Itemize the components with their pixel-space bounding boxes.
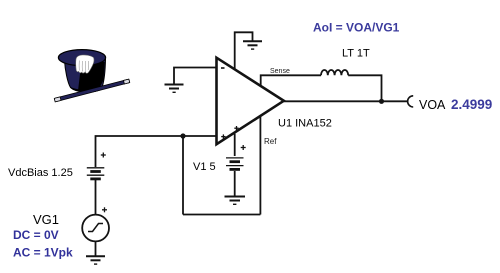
- battery V1 5: [226, 158, 244, 170]
- svg-text:AC = 1Vpk: AC = 1Vpk: [13, 246, 73, 260]
- node: junction of +input net and Ref loop: [180, 133, 185, 138]
- logo: hat bottom rim shadow: [70, 86, 103, 93]
- ground: below battery V1: [225, 197, 246, 205]
- svg-text:LT 1T: LT 1T: [342, 48, 370, 60]
- svg-text:Sense: Sense: [270, 68, 290, 75]
- op-amp non-inverting input marker +: [221, 134, 225, 138]
- battery V1 plus marker: [241, 145, 246, 150]
- source VG1 waveform glyph: [88, 224, 103, 232]
- svg-text:2.4999: 2.4999: [451, 97, 492, 112]
- svg-text:VG1: VG1: [33, 212, 59, 227]
- logo: magician hat body: [65, 60, 106, 93]
- wire: loop left side down from junction: [182, 136, 184, 215]
- logo: glove: [76, 55, 94, 73]
- wire: battery V1 bottom to ground: [234, 171, 236, 197]
- op-amp positive supply marker +: [234, 126, 238, 130]
- svg-text:DC = 0V: DC = 0V: [13, 228, 59, 242]
- wire: inductor to output node: [348, 75, 381, 101]
- logo: hat interior shadow: [78, 60, 105, 92]
- node: output junction: [379, 99, 384, 104]
- svg-text:VOA: VOA: [419, 98, 446, 112]
- ground: top ground on V- supply: [243, 41, 262, 49]
- wire: Ref pin down from op-amp to loop: [259, 116, 261, 215]
- wire: inverting input to left ground: [174, 68, 217, 85]
- op-amp U1 triangle: [217, 58, 284, 145]
- source VG1 plus marker: [102, 207, 107, 212]
- wire: V- supply pin up and over to top ground: [235, 32, 253, 69]
- wire: loop bottom: [183, 214, 260, 216]
- wire: Sense pin stub and top feedback run: [261, 75, 321, 86]
- battery VdcBias plus marker: [101, 153, 106, 158]
- wire: non-inverting input net (VdcBias top to op-amp + input): [96, 136, 217, 167]
- probe: VOA voltage pin arc: [408, 96, 414, 107]
- svg-text:AoI = VOA/VG1: AoI = VOA/VG1: [313, 21, 400, 35]
- svg-text:U1 INA152: U1 INA152: [278, 118, 332, 130]
- inductor LT coil: [321, 70, 348, 75]
- ground: below VG1: [86, 256, 105, 264]
- logo: wand: [54, 79, 129, 102]
- svg-text:V1 5: V1 5: [193, 161, 216, 173]
- ground: left ground at inverting input: [165, 85, 184, 93]
- logo: glove finger lines: [79, 61, 88, 72]
- wire: VdcBias battery bottom to VG1: [95, 180, 97, 215]
- svg-text:VdcBias 1.25: VdcBias 1.25: [8, 167, 73, 179]
- op-amp inverting input marker -: [221, 67, 225, 69]
- source VG1 circle: [82, 215, 109, 242]
- battery VdcBias: [87, 168, 105, 179]
- wire: V+ supply pin down to battery V1: [234, 134, 236, 156]
- wire: op-amp output to VOA probe: [284, 100, 409, 102]
- logo: hat brim: [58, 50, 105, 66]
- wire: VG1 bottom to ground: [95, 241, 97, 256]
- svg-text:Ref: Ref: [264, 137, 277, 146]
